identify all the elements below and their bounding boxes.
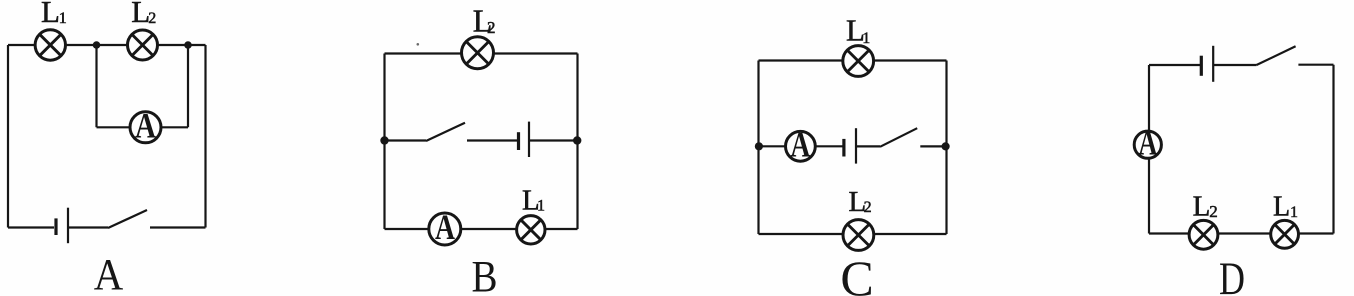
svg-text:A: A — [1138, 123, 1157, 163]
svg-text:2: 2 — [487, 18, 496, 37]
svg-text:A: A — [135, 106, 156, 146]
svg-text:A: A — [435, 207, 455, 247]
svg-text:B: B — [472, 252, 498, 296]
svg-text:2: 2 — [148, 10, 156, 27]
svg-text:L: L — [1193, 191, 1211, 223]
svg-text:2: 2 — [1209, 202, 1218, 221]
svg-text:1: 1 — [1290, 204, 1298, 221]
svg-text:A: A — [94, 250, 124, 296]
svg-text:L: L — [41, 0, 60, 29]
svg-text:1: 1 — [537, 197, 545, 214]
svg-text:C: C — [840, 250, 873, 296]
svg-text:1: 1 — [59, 10, 67, 27]
svg-text:1: 1 — [862, 30, 870, 47]
svg-text:A: A — [790, 124, 810, 164]
svg-text:L: L — [1273, 192, 1290, 223]
svg-text:D: D — [1219, 253, 1245, 296]
svg-text:2: 2 — [864, 199, 872, 216]
